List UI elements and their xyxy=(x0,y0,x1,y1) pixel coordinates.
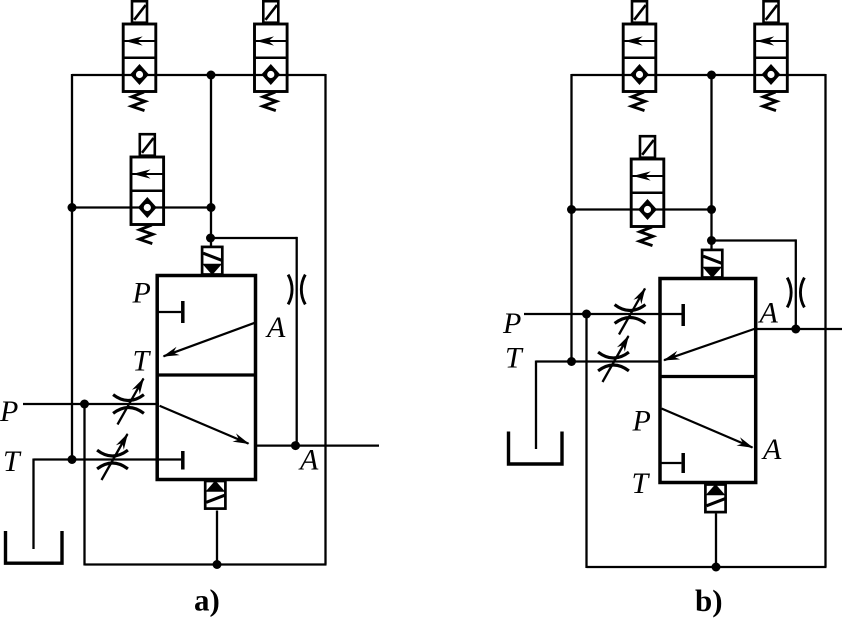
wire: bottom bus b xyxy=(587,566,827,568)
junction node a: T line / left rail xyxy=(68,455,77,464)
port T blocked symbol (bottom cell b) xyxy=(661,453,683,473)
wire: bottom pilot stem b xyxy=(715,514,717,568)
wire: P down rail b xyxy=(585,314,587,568)
wire: feedback branch horizontal a xyxy=(211,237,297,239)
wire: T return line a xyxy=(34,458,182,460)
solenoid pilot valve V1b xyxy=(623,1,656,110)
wire: bottom pilot stem a xyxy=(216,511,218,565)
flow arrow A to T (top cell b) xyxy=(664,329,756,361)
svg-text:T: T xyxy=(505,342,524,375)
junction node b: top bus / middle rail xyxy=(707,71,716,80)
junction node a: P line / down rail xyxy=(80,400,89,409)
junction node a: middle rail / V3 line xyxy=(207,203,216,212)
wire: bottom bus a xyxy=(85,563,327,565)
orifice restrictor b xyxy=(787,278,804,308)
wire: left drain rail b xyxy=(570,74,572,362)
junction node b: bottom bus / stem xyxy=(712,563,721,572)
throttle valve lower a xyxy=(97,434,128,480)
flow arrow P to A (bottom cell b) xyxy=(662,409,753,448)
svg-text:P: P xyxy=(132,277,151,310)
junction node a: left rail / V3 line xyxy=(68,203,77,212)
junction node a: top bus / middle rail xyxy=(207,71,216,80)
svg-text:P: P xyxy=(632,405,651,438)
flow arrow P to A (bottom cell a) xyxy=(160,406,249,444)
wire: tank drop line a xyxy=(32,458,34,549)
wire: middle pilot rail a xyxy=(210,75,212,246)
wire: feedback branch vertical b xyxy=(795,239,797,329)
pilot actuator bottom b xyxy=(705,484,725,512)
main valve body a xyxy=(157,276,255,480)
solenoid pilot valve V3a xyxy=(131,134,164,243)
tank a xyxy=(6,531,63,563)
junction node b: middle rail / V3 line xyxy=(707,205,716,214)
junction node b: left rail / V3 line xyxy=(567,205,576,214)
pilot actuator top b xyxy=(702,250,722,278)
junction node a: bottom bus / stem xyxy=(213,560,222,569)
svg-text:T: T xyxy=(3,445,22,478)
wire: top pilot bus a xyxy=(72,74,326,76)
svg-text:a): a) xyxy=(194,583,220,618)
wire: P down rail a xyxy=(83,404,85,566)
wire: feedback branch vertical a xyxy=(296,237,298,446)
pilot actuator top a xyxy=(202,247,222,275)
port P blocked symbol (top cell a) xyxy=(159,301,183,323)
solenoid pilot valve V1a xyxy=(123,1,156,110)
junction node b: P line / down rail xyxy=(582,310,591,319)
wire: left drain rail a xyxy=(71,74,73,460)
tank b xyxy=(509,432,563,465)
solenoid pilot valve V2a xyxy=(254,1,287,110)
wire: tank drop line b xyxy=(535,360,537,449)
wire: right supply rail b xyxy=(824,74,826,567)
solenoid pilot valve V2b xyxy=(755,1,788,110)
main valve body b xyxy=(660,279,756,483)
wire: P supply line a xyxy=(23,403,159,405)
wire: feedback branch horizontal b xyxy=(711,239,796,241)
throttle valve upper a xyxy=(113,379,144,425)
wire: A output line a xyxy=(256,444,379,446)
port P blocked symbol (top cell b) xyxy=(681,304,685,326)
flow arrow A to T (top cell a) xyxy=(164,323,256,357)
junction node b: T line / left rail xyxy=(567,357,576,366)
orifice restrictor a xyxy=(288,275,305,305)
svg-text:A: A xyxy=(265,311,286,344)
throttle valve lower b xyxy=(598,336,629,382)
svg-text:b): b) xyxy=(695,583,723,618)
wire: right supply rail a xyxy=(324,74,326,565)
junction node a: A line / feedback xyxy=(291,441,300,450)
wire: middle pilot rail b xyxy=(710,75,712,249)
wire: P supply line b xyxy=(524,313,682,315)
svg-text:A: A xyxy=(758,297,779,330)
svg-text:T: T xyxy=(133,345,152,378)
svg-text:P: P xyxy=(502,307,521,340)
wire: pilot valve V3b line xyxy=(572,208,712,210)
svg-text:P: P xyxy=(0,395,18,428)
solenoid pilot valve V3b xyxy=(631,136,664,245)
junction node b: A line / feedback xyxy=(791,325,800,334)
pilot actuator bottom a xyxy=(205,481,225,509)
svg-text:T: T xyxy=(632,467,651,500)
junction node b: feedback branch xyxy=(707,236,716,245)
wire: pilot valve V3a line xyxy=(72,206,211,208)
wire: T return line b xyxy=(536,360,662,362)
junction node a: feedback branch xyxy=(206,234,215,243)
wire: top pilot bus b xyxy=(572,74,826,76)
svg-text:A: A xyxy=(761,433,782,466)
throttle valve upper b xyxy=(615,289,646,335)
svg-text:A: A xyxy=(298,444,319,477)
port T blocked symbol (bottom cell a) xyxy=(181,451,185,470)
wire: A output line b xyxy=(757,328,842,330)
